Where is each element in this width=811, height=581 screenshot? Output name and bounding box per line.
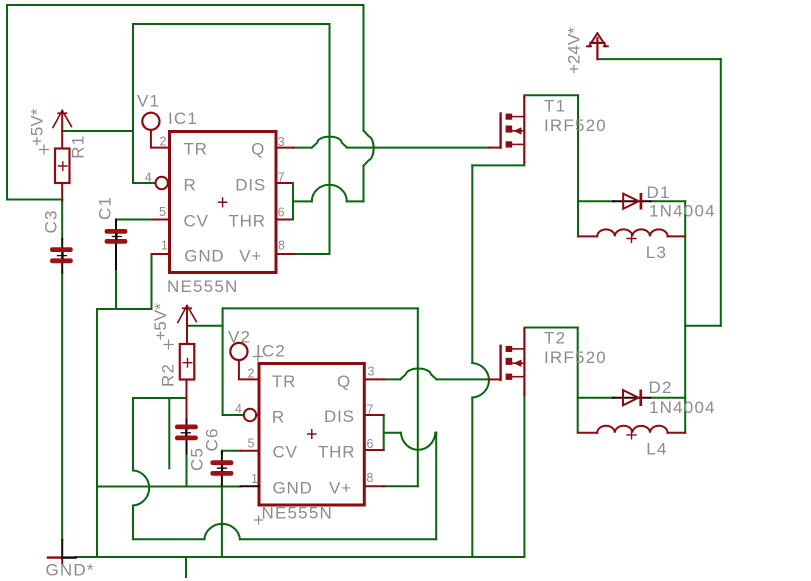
- svg-text:D2: D2: [649, 378, 673, 397]
- wire C6 top lead junction: [221, 451, 223, 453]
- capacitor C3: [50, 239, 73, 273]
- wire: [97, 308, 152, 310]
- supply +24V symbol: [587, 33, 608, 59]
- svg-text:GND: GND: [184, 247, 224, 266]
- wire vertical to top: [363, 5, 365, 131]
- svg-text:THR: THR: [229, 212, 266, 231]
- svg-text:C6: C6: [203, 427, 222, 451]
- wire net B: Q of IC1 to T1 gate: [293, 147, 312, 149]
- wire up to DIS/THR bracket level: [435, 433, 437, 540]
- gray origin cross near IC2 name: [254, 352, 263, 361]
- svg-text:D1: D1: [647, 183, 671, 202]
- svg-text:DIS: DIS: [235, 176, 266, 195]
- IC IC1 NE555N box: [153, 132, 295, 273]
- pin 1 stub of IC2: [241, 485, 260, 487]
- wire net N: T1 drain up and right: [524, 95, 578, 97]
- svg-text:1N4004: 1N4004: [649, 398, 716, 417]
- wire: [240, 538, 436, 540]
- inductor L3: [579, 229, 686, 242]
- svg-text:V+: V+: [239, 247, 262, 266]
- wire to T2 gate: [437, 378, 489, 380]
- ground symbol GND: [48, 540, 76, 564]
- wire from IC1 pin1 down: [151, 254, 153, 309]
- pin 6 stub of IC2: [364, 449, 383, 451]
- pin 4 bubble: [156, 177, 168, 189]
- wire R2/C5 green portion to GND wire: [186, 454, 188, 487]
- diode D2 1N4004: [613, 390, 650, 407]
- svg-text:1: 1: [251, 472, 258, 486]
- wire hop over node at (329.5,201.4): [312, 185, 347, 202]
- wire hop over T2 gate wire at (472.3,379.4): [472, 363, 489, 398]
- svg-text:TR: TR: [184, 140, 208, 159]
- capacitor C1: [105, 220, 128, 270]
- svg-text:IC1: IC1: [168, 109, 198, 128]
- svg-text:CV: CV: [184, 212, 209, 231]
- wire down to D2/L4: [577, 328, 579, 433]
- wire to R bubble of IC2: [223, 414, 244, 416]
- transistor T2 IRF520: [489, 329, 524, 395]
- wire net C: V+ of IC1 frame top: [133, 23, 330, 25]
- wire IC1 DIS/THR bracket vertical: [292, 183, 294, 220]
- wire D2 anode lead: [578, 397, 614, 399]
- svg-text:GND: GND: [273, 478, 313, 497]
- wire down left: [132, 398, 134, 470]
- svg-text:5: 5: [248, 437, 255, 451]
- pin 3 stub of IC2: [364, 378, 383, 380]
- IC1 origin cross: [219, 198, 227, 207]
- wire +24V rail horizontal: [597, 58, 720, 60]
- svg-text:IC2: IC2: [256, 342, 286, 361]
- wire left frame vertical: [6, 5, 8, 200]
- wire net I: R2 bottom node horizontal: [133, 397, 187, 399]
- wire right vertical through L3/L4: [684, 201, 686, 433]
- svg-text:V1: V1: [137, 92, 160, 111]
- pin 8 stub: [276, 253, 294, 255]
- wire corner into bracket: [434, 432, 437, 434]
- svg-text:C3: C3: [42, 209, 61, 233]
- wire +5V stem to frame: [62, 130, 133, 132]
- wire IC2 GND to rail column: [97, 486, 241, 488]
- svg-text:8: 8: [278, 238, 285, 252]
- svg-text:R2: R2: [159, 363, 178, 387]
- svg-text:7: 7: [278, 171, 285, 185]
- svg-text:L4: L4: [646, 440, 667, 459]
- svg-text:THR: THR: [318, 443, 355, 462]
- svg-text:2: 2: [160, 134, 167, 148]
- svg-text:V+: V+: [329, 478, 352, 497]
- test point V1: [142, 113, 169, 148]
- svg-text:R: R: [184, 176, 197, 195]
- inductor L4: [578, 426, 685, 439]
- svg-text:+5V*: +5V*: [151, 303, 170, 341]
- pin 5 stub: [153, 219, 170, 221]
- wire net F: R1 bottom to C3: [61, 200, 63, 239]
- wire net D: +5V to R pin of IC1, left frame: [132, 24, 134, 183]
- wire CV of IC2 to C6: [222, 450, 241, 452]
- wire D1 cathode lead: [650, 200, 685, 202]
- pin 1 stub: [153, 253, 170, 255]
- svg-text:R: R: [272, 408, 285, 427]
- svg-text:V2: V2: [228, 328, 251, 347]
- test point V2: [230, 343, 259, 380]
- wire +24V rail vertical: [720, 59, 722, 326]
- capacitor C6: [210, 452, 233, 485]
- wire hop (down bulge) over IC2 frame at (418,432.7): [401, 433, 436, 450]
- wire vertical x=329.5: [329, 24, 331, 254]
- wire D2 cathode lead: [650, 397, 685, 399]
- svg-text:5: 5: [159, 205, 166, 219]
- wire IC2 DIS/THR bracket vertical: [383, 415, 385, 450]
- pin 5 stub of IC2: [241, 450, 260, 452]
- wire C3 bottom to GND: [61, 273, 63, 541]
- resistor R2: [180, 344, 195, 398]
- wire C1 bottom down: [115, 269, 117, 309]
- svg-text:NE555N: NE555N: [262, 504, 333, 523]
- wire hop over GND wire at (133,486.5): [133, 470, 149, 505]
- svg-text:Q: Q: [337, 372, 351, 391]
- svg-text:3: 3: [368, 365, 375, 379]
- svg-text:3: 3: [278, 135, 285, 149]
- wire D1 anode lead: [578, 200, 614, 202]
- wire +5V2 stem to frame: [187, 325, 223, 327]
- IC2 origin cross: [308, 430, 316, 439]
- svg-text:CV: CV: [273, 443, 298, 462]
- gray origin cross near R1: [40, 145, 49, 154]
- svg-text:7: 7: [367, 403, 374, 417]
- svg-text:IRF520: IRF520: [544, 348, 607, 367]
- pin 4 bubble of IC2: [244, 409, 256, 421]
- wire hop over C6 column at (222,539.2): [204, 524, 240, 539]
- diode D1 1N4004: [613, 193, 650, 210]
- svg-text:2: 2: [248, 366, 255, 380]
- svg-text:T2: T2: [544, 329, 566, 348]
- svg-text:DIS: DIS: [324, 407, 355, 426]
- wire IC2 frame right vertical: [417, 308, 419, 486]
- svg-text:6: 6: [278, 206, 285, 220]
- wire: [132, 506, 134, 540]
- svg-text:R1: R1: [69, 135, 88, 159]
- wire: [347, 200, 364, 202]
- pin 7 stub: [276, 182, 293, 184]
- svg-text:TR: TR: [272, 372, 296, 391]
- wire down to rail: [471, 398, 473, 558]
- wire bracket wire: [384, 432, 401, 434]
- wire C6 bottom to rail: [221, 485, 223, 557]
- wire net J: Q of IC2 to T2 gate: [384, 378, 401, 380]
- svg-text:L3: L3: [646, 243, 667, 262]
- pin 6 stub: [276, 219, 293, 221]
- svg-text:IRF520: IRF520: [544, 116, 607, 135]
- pin 7 stub of IC2: [364, 414, 383, 416]
- pin 3 stub: [276, 147, 294, 149]
- wire to R1 bottom node: [7, 199, 62, 201]
- wire net M: T2 source down to rail: [523, 395, 525, 557]
- wire stub below rail: [185, 557, 187, 577]
- pin 8 stub of IC2: [364, 485, 383, 487]
- IC IC2 NE555N box: [241, 364, 384, 506]
- svg-text:4: 4: [235, 402, 242, 416]
- supply +5V symbol 1: [53, 111, 72, 149]
- wire IC2 frame left vertical: [222, 308, 224, 415]
- resistor R1: [55, 149, 70, 202]
- svg-text:+24V*: +24V*: [565, 27, 584, 74]
- wire dangling stub: [168, 398, 170, 468]
- wire to +24V rail: [685, 325, 721, 327]
- wire net G: bottom ground rail: [76, 556, 525, 558]
- wire net L: T1 source down to rail: [472, 163, 524, 166]
- wire bottom horizontal to x=436: [133, 538, 204, 540]
- wire vertical up to hop: [363, 166, 365, 202]
- wire down to D1/L3: [577, 95, 579, 236]
- wire net A: DIS/THR of IC1 to top frame, segment from bracket: [293, 200, 312, 202]
- svg-text:T1: T1: [544, 97, 566, 116]
- svg-text:1: 1: [161, 238, 168, 252]
- wire IC1 GND column: [96, 309, 98, 557]
- supply +5V symbol 2: [178, 306, 197, 345]
- wire to pin 8: [293, 253, 330, 255]
- svg-text:GND*: GND*: [46, 561, 95, 580]
- svg-text:Q: Q: [251, 140, 265, 159]
- wire hop over node at (329.5,147.6): [312, 137, 347, 148]
- wire hop over gate wire at (363.5,147.6): [364, 131, 374, 166]
- capacitor C5: [175, 398, 198, 454]
- wire net O: T2 drain right: [524, 328, 577, 330]
- svg-text:C1: C1: [96, 196, 115, 220]
- svg-text:1N4004: 1N4004: [649, 202, 716, 221]
- wire top frame horizontal: [7, 4, 364, 6]
- gray origin cross near R2: [164, 340, 173, 349]
- wire net H: IC2 frame top: [223, 307, 418, 309]
- wire CV of IC1 to C1: [116, 219, 153, 221]
- svg-text:4: 4: [145, 171, 152, 185]
- wire vertical: [471, 165, 473, 363]
- wire to T1 gate: [347, 147, 489, 149]
- transistor T1 IRF520: [489, 97, 524, 163]
- svg-text:NE555N: NE555N: [167, 277, 238, 296]
- svg-text:8: 8: [366, 471, 373, 485]
- svg-text:6: 6: [367, 437, 374, 451]
- wire to pin 8 of IC2: [384, 485, 418, 487]
- wire hop over IC2 frame at (418,379.4): [400, 369, 436, 380]
- wire to R bubble: [133, 182, 155, 184]
- svg-text:+5V*: +5V*: [27, 108, 46, 146]
- gray origin cross near IC2 value: [255, 516, 263, 524]
